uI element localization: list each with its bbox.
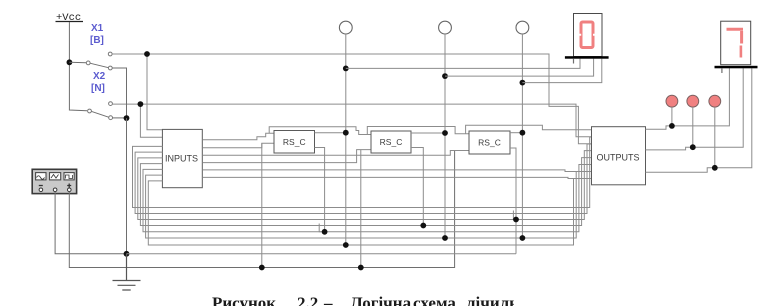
node clock riser 1 junction — [259, 265, 265, 271]
wire RS_C1 Q2 output descender — [315, 148, 325, 232]
svg-text:+Vcc: +Vcc — [56, 12, 81, 24]
LED X7 — [687, 95, 699, 107]
svg-text:–: – — [323, 294, 333, 306]
wire clock riser 1 — [261, 143, 263, 267]
display U5 digit 0 — [581, 22, 593, 48]
switch X2 throw contact lower — [109, 116, 113, 120]
switch X1 throw contact lower — [108, 66, 112, 70]
display U7 pin stub — [721, 68, 723, 73]
LED X6 — [666, 95, 678, 107]
svg-text:RS_C: RS_C — [380, 137, 403, 147]
node lamp X4 bus junction — [442, 235, 448, 241]
node lamp X5 display tap — [520, 80, 526, 86]
svg-text:INPUTS: INPUTS — [165, 154, 198, 164]
display U5 pin stub — [573, 59, 575, 64]
wire bus net 5 (INPUTS left pin to OUTPUTS) — [143, 165, 592, 232]
wire ground bus horizontal — [127, 253, 517, 255]
wire X1 pole stub — [69, 61, 86, 64]
display U5 base bar — [565, 56, 609, 59]
display U7 base bar — [715, 66, 758, 69]
wire lamp X3 column — [345, 34, 347, 245]
svg-text:X1: X1 — [91, 23, 104, 34]
wire LED X7 lead — [692, 107, 694, 147]
wire RS_C2 Q2 output descender — [411, 148, 423, 226]
node RS_C1 descender hook — [319, 224, 324, 232]
svg-text:[B]: [B] — [90, 35, 104, 46]
node lamp X3 display tap — [343, 66, 349, 72]
switch X2 pole contact — [88, 109, 92, 113]
switch X2 throw contact upper — [109, 102, 113, 106]
ground — [113, 254, 141, 290]
wire OUTPUTS out3 via LED X8 to display U7 — [646, 68, 752, 172]
node lamp X4 Q2 tap — [442, 130, 448, 136]
display U5 box — [574, 14, 603, 57]
wire INPUTS out4 to RS_C2 R-input — [202, 150, 371, 163]
node RS_C2 feedback junction — [420, 223, 426, 229]
wire Q3 top connector to OUTPUTS pin1 — [466, 125, 592, 134]
wire INPUTS out6 to OUTPUTS pin8 — [202, 177, 591, 178]
function generator XFG1 body — [32, 169, 76, 193]
wire LED X8 lead — [714, 107, 716, 168]
node switch ground junction — [124, 115, 130, 121]
node LED X7 junction — [690, 144, 696, 150]
wire lamp X5 column — [521, 34, 523, 238]
svg-text:RS_C: RS_C — [283, 137, 306, 147]
wire Vcc vertical — [69, 22, 87, 111]
wire lamp X5 to display U5 c — [522, 59, 601, 83]
node RS_C3 descender hook — [513, 211, 516, 220]
wire OUTPUTS out1 via LED X6 to display U7 — [646, 68, 730, 129]
svg-text:2.2: 2.2 — [297, 294, 318, 306]
node LED X6 junction — [669, 123, 675, 129]
switch X2 blade — [91, 111, 109, 117]
wire net B horizontal — [112, 54, 591, 144]
wire lamp X4 column — [444, 34, 446, 238]
node RS_C1 feedback junction — [322, 229, 328, 235]
svg-text:[N]: [N] — [91, 83, 105, 94]
wire INPUTS out1 to RS_C1 S-input — [202, 133, 274, 140]
switch X1 throw contact upper — [108, 52, 112, 56]
wire net N horizontal — [112, 104, 591, 137]
caption text — [212, 294, 556, 306]
node clock riser 2 junction — [358, 265, 364, 271]
wire XFG1 plus to clock bus — [69, 151, 454, 268]
wire bus net 7 (INPUTS left pin to OUTPUTS) — [148, 179, 591, 246]
display U7 digit 7 — [727, 29, 744, 57]
wire lamp X3 to display U5 a — [346, 59, 580, 69]
wire XFG1 common to ground bus — [55, 192, 124, 254]
svg-text:RS_C: RS_C — [478, 138, 501, 148]
wire Q1 top connector to RS_C2 — [269, 127, 371, 135]
subcircuit U3 RS_C — [371, 131, 411, 153]
subcircuit U2 RS_C — [274, 131, 315, 154]
wire LED X6 lead — [671, 107, 673, 126]
lamp X4 — [439, 21, 452, 34]
subcircuit U4 RS_C — [469, 131, 510, 154]
node RS_C3 feedback junction — [513, 217, 519, 223]
wire bus net 1 (INPUTS left pin to OUTPUTS) — [133, 137, 592, 208]
wire INPUTS out5 to OUTPUTS pin7 — [202, 170, 591, 172]
lamp X5 — [516, 21, 529, 34]
power rail Vcc bar — [56, 21, 84, 23]
wire RS_C3 Q output to lamp3 node — [510, 132, 522, 134]
wire bus net 2 (INPUTS left pin to OUTPUTS) — [135, 144, 591, 214]
node lamp X3 Q1 tap — [343, 130, 349, 136]
node ground bus junction — [124, 251, 130, 257]
svg-text:X2: X2 — [93, 71, 106, 82]
wire Q2 top connector to RS_C3 — [367, 127, 469, 135]
wire bus net 6 (INPUTS left pin to OUTPUTS) — [146, 172, 592, 239]
svg-text:схема: схема — [413, 294, 456, 306]
lamp X3 — [339, 21, 352, 34]
wire clock riser 2 — [360, 150, 362, 268]
wire bus net 4 (INPUTS left pin to OUTPUTS) — [140, 158, 591, 226]
wire RS_C3 Q2 output descender to ground bus — [510, 148, 516, 254]
node lamp X3 bus junction — [343, 242, 349, 248]
svg-text:Рисунок: Рисунок — [212, 294, 276, 306]
switch X1 blade — [90, 63, 109, 67]
wire RS_C1 Q output to lamp1 node — [315, 132, 346, 134]
wire bus net 3 (INPUTS left pin to OUTPUTS) — [138, 151, 592, 220]
svg-text:OUTPUTS: OUTPUTS — [597, 153, 640, 163]
subcircuit U6 OUTPUTS — [592, 127, 646, 185]
wire X2 lower throw junction — [112, 117, 126, 119]
node net N junction — [138, 101, 144, 107]
wire OUTPUTS out2 via LED X7 to display U7 — [646, 68, 744, 150]
subcircuit U1 INPUTS — [162, 129, 202, 187]
display U7 box — [721, 21, 751, 64]
node lamp X5 bus junction — [520, 235, 526, 241]
wire net N to INPUTS — [140, 104, 162, 137]
node lamp X5 Q3 tap — [520, 130, 526, 136]
node LED X8 junction — [712, 165, 718, 171]
wire RS_C2 Q output to lamp2 node — [411, 132, 445, 134]
node Vcc-X1 junction — [67, 59, 73, 65]
svg-text:Логічна: Логічна — [350, 294, 412, 306]
wire INPUTS out3 to RS_C3 R-input — [202, 151, 469, 156]
wire ground column — [126, 118, 128, 254]
switch X1 pole contact — [86, 61, 90, 65]
LED X8 — [709, 95, 721, 107]
node net B junction — [144, 51, 150, 57]
wire lamp X4 to display U5 b — [445, 59, 594, 77]
node lamp X4 display tap — [442, 73, 448, 79]
wire INPUTS out2 to RS_C1 R-input — [202, 143, 274, 148]
wire X1 lower throw to ground column — [112, 68, 127, 118]
wire net B to INPUTS — [147, 54, 162, 130]
